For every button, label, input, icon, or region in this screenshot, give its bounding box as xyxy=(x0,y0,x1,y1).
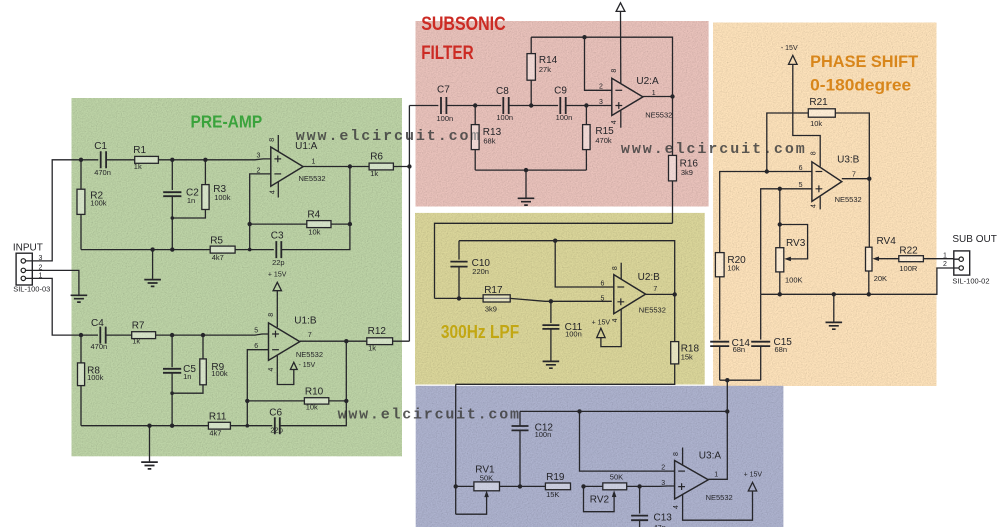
op-amp U3:A NE5532 xyxy=(675,461,709,500)
connector J1 INPUT SIL-100-03 xyxy=(16,253,32,285)
svg-text:C6: C6 xyxy=(269,408,282,419)
potentiometer RV1 50K xyxy=(456,485,474,487)
svg-text:4: 4 xyxy=(269,190,276,194)
svg-text:100n: 100n xyxy=(556,113,573,122)
wire J1 pin1 to node B xyxy=(32,278,81,335)
resistor R10 10k xyxy=(247,400,304,402)
svg-text:C1: C1 xyxy=(94,141,107,152)
+15V power arrow at U3:A xyxy=(748,482,756,491)
resistor R18 15k xyxy=(674,294,676,341)
svg-text:+ 15V: + 15V xyxy=(592,320,611,327)
svg-text:+ 15V: + 15V xyxy=(268,272,287,279)
resistor R5 4k7 xyxy=(210,246,235,253)
wire LPF output down to RV1 node xyxy=(455,384,457,514)
svg-text:R11: R11 xyxy=(209,412,227,423)
resistor R7 1k xyxy=(132,332,156,339)
svg-text:10k: 10k xyxy=(306,402,318,411)
junction RV1 left xyxy=(454,484,458,488)
region PRE-AMP (green) xyxy=(72,98,403,456)
wire U1:A output xyxy=(303,166,369,168)
svg-text:100K: 100K xyxy=(785,275,803,284)
svg-text:www.elcircuit.com: www.elcircuit.com xyxy=(338,406,519,423)
junction pin6/R21 xyxy=(765,169,769,173)
svg-text:2: 2 xyxy=(943,261,947,268)
svg-text:7: 7 xyxy=(852,172,856,179)
svg-text:27k: 27k xyxy=(539,65,551,74)
capacitor C4 470n xyxy=(81,334,98,336)
feedback vertical to U1:A output xyxy=(349,167,351,225)
junction pin5/RV3 xyxy=(778,187,782,191)
resistor R2 100k xyxy=(80,160,82,189)
ground at input pin2 xyxy=(71,295,88,302)
wire R1 to U1:A pin3 xyxy=(158,158,270,161)
+15V power arrow at U1:B xyxy=(273,282,281,290)
op-amp U3:B NE5532 xyxy=(812,162,842,202)
LPF feedback rail xyxy=(459,241,675,295)
wire rail to U2:B pin6 xyxy=(555,241,614,287)
svg-text:50K: 50K xyxy=(610,472,623,481)
U2:B power stub pin 8 xyxy=(620,263,622,279)
wire pin5 node down to RV3 xyxy=(779,189,781,248)
svg-text:NE5532: NE5532 xyxy=(296,350,323,359)
svg-text:1n: 1n xyxy=(183,372,191,381)
svg-text:22p: 22p xyxy=(272,258,285,267)
RV1 wiper loop xyxy=(456,494,487,515)
svg-text:- 15V: - 15V xyxy=(299,362,316,369)
mix node junction xyxy=(407,164,411,168)
junction C12 bottom xyxy=(518,484,522,488)
svg-text:1k: 1k xyxy=(134,162,142,171)
svg-text:C13: C13 xyxy=(654,513,673,524)
wire mix node to C7 xyxy=(409,105,438,107)
wire U1:B pin6 xyxy=(247,350,268,426)
svg-text:R7: R7 xyxy=(132,320,145,331)
wire R12 to mix node xyxy=(393,340,410,342)
svg-text:NE5532: NE5532 xyxy=(639,306,666,315)
svg-text:U2:B: U2:B xyxy=(638,272,661,283)
wire R6 to mix node xyxy=(393,166,409,168)
resistor R22 100R xyxy=(899,256,924,262)
svg-text:22p: 22p xyxy=(270,425,283,434)
svg-text:10k: 10k xyxy=(810,119,822,128)
svg-text:7: 7 xyxy=(308,332,312,339)
svg-text:U3:A: U3:A xyxy=(699,451,722,462)
svg-text:SIL-100-03: SIL-100-03 xyxy=(13,284,50,293)
capacitor C1 470n xyxy=(81,159,98,161)
U3:A power stub pin 4 to +15V xyxy=(683,491,753,520)
svg-text:www.elcircuit.com: www.elcircuit.com xyxy=(296,128,480,145)
wire R11 to C6 xyxy=(230,425,272,427)
svg-text:R6: R6 xyxy=(370,152,383,163)
wire R20 top to U3:B pin6 row xyxy=(720,172,812,253)
svg-text:NE5532: NE5532 xyxy=(706,493,733,502)
svg-text:2: 2 xyxy=(599,84,603,91)
svg-text:U1:A: U1:A xyxy=(295,141,318,152)
svg-text:1n: 1n xyxy=(187,196,195,205)
region SUBSONIC FILTER (red) xyxy=(416,21,709,207)
svg-text:5: 5 xyxy=(601,296,605,303)
junction at C5 branch xyxy=(170,333,174,337)
svg-text:5: 5 xyxy=(254,327,258,334)
svg-text:3: 3 xyxy=(257,152,261,159)
U2:A power stub pin 4 xyxy=(620,110,622,127)
svg-text:3: 3 xyxy=(599,99,603,106)
capacitor C7 100n xyxy=(441,97,446,114)
resistor R16 3k9 xyxy=(672,97,674,156)
svg-text:1: 1 xyxy=(312,159,316,166)
junction node at R3 branch xyxy=(203,158,207,162)
wire R7 to U1:B pin5 xyxy=(156,334,269,335)
node A junction xyxy=(79,158,83,162)
resistor R15 470k xyxy=(585,106,587,125)
U3:B power stub pin 4 xyxy=(819,197,821,210)
resistor R12 1k xyxy=(367,338,393,345)
svg-text:100k: 100k xyxy=(214,193,231,202)
svg-text:C7: C7 xyxy=(437,85,450,96)
svg-text:RV3: RV3 xyxy=(786,238,806,249)
resistor R13 68k xyxy=(474,106,476,125)
capacitor C10 220n xyxy=(458,241,460,260)
junction node at C2 branch xyxy=(170,158,174,162)
svg-text:68n: 68n xyxy=(733,345,746,354)
connector J2 SUB OUT SIL-100-02 xyxy=(954,251,970,275)
resistor R1 1k xyxy=(135,156,159,163)
svg-text:100k: 100k xyxy=(90,198,107,207)
junction R15 top xyxy=(584,103,588,107)
svg-text:6: 6 xyxy=(601,280,605,287)
svg-text:4: 4 xyxy=(673,505,680,509)
potentiometer RV2 50K xyxy=(584,485,603,487)
wire U2:A output xyxy=(643,96,673,98)
wire U3:A output up to C14/C15 rail xyxy=(708,380,727,479)
svg-text:100n: 100n xyxy=(437,114,454,123)
svg-text:1k: 1k xyxy=(368,344,376,353)
svg-text:R17: R17 xyxy=(484,285,503,296)
region bottom phase network (blue) xyxy=(416,386,784,527)
junction C11 top xyxy=(549,299,553,303)
svg-text:R1: R1 xyxy=(133,145,146,156)
svg-text:R22: R22 xyxy=(899,246,918,257)
wire J1 pin2 to ground xyxy=(32,270,79,294)
svg-text:470n: 470n xyxy=(91,342,108,351)
svg-text:U2:A: U2:A xyxy=(636,76,659,87)
svg-text:C4: C4 xyxy=(91,318,104,329)
svg-text:1k: 1k xyxy=(370,169,378,178)
junction at U1:A inverting branch xyxy=(248,248,252,252)
svg-text:8: 8 xyxy=(612,266,619,270)
junction at U1:B inverting branch xyxy=(246,424,250,428)
wire RV2 to U3:A pin3 xyxy=(627,485,675,487)
svg-text:8: 8 xyxy=(269,138,276,142)
resistor R4 10k xyxy=(250,223,307,225)
ground on orange rail xyxy=(832,292,836,296)
channel A lower rail xyxy=(81,249,210,251)
wire U2:B output xyxy=(646,293,675,295)
svg-text:SUB OUT: SUB OUT xyxy=(952,234,996,245)
mix node vertical wire xyxy=(408,106,410,342)
svg-text:470n: 470n xyxy=(94,168,111,177)
svg-text:PRE-AMP: PRE-AMP xyxy=(191,111,263,131)
svg-text:C9: C9 xyxy=(554,86,567,97)
op-amp U2:B NE5532 xyxy=(614,275,646,314)
svg-text:47n: 47n xyxy=(653,523,666,527)
node B junction xyxy=(79,333,83,337)
svg-text:0-180degree: 0-180degree xyxy=(810,76,911,95)
svg-text:6: 6 xyxy=(254,343,258,350)
RV4 wiper from R22 xyxy=(875,258,898,260)
potentiometer RV4 20K xyxy=(866,247,873,271)
ground on channel B rail xyxy=(149,426,151,462)
capacitor C6 22p xyxy=(275,417,280,434)
junction R4 left xyxy=(248,222,252,226)
junction R14 bottom xyxy=(529,103,533,107)
capacitor C5 1n xyxy=(163,369,181,373)
junction C13 top xyxy=(637,484,641,488)
svg-text:6: 6 xyxy=(799,165,803,172)
svg-text:4: 4 xyxy=(611,120,618,124)
svg-text:U3:B: U3:B xyxy=(837,155,860,166)
capacitor C15 68n xyxy=(760,294,762,339)
svg-text:68k: 68k xyxy=(483,137,495,146)
junction R13 top xyxy=(473,103,477,107)
U1:B power stub pin 8 to +15V xyxy=(276,291,278,328)
svg-text:+ 15V: + 15V xyxy=(744,472,763,479)
RV2 wiper loop xyxy=(584,486,615,511)
svg-text:220n: 220n xyxy=(472,267,489,276)
svg-text:10k: 10k xyxy=(308,228,320,237)
wire C2 branch xyxy=(171,160,173,190)
svg-text:NE5532: NE5532 xyxy=(835,195,862,204)
LPF input row xyxy=(435,298,612,301)
ground on subsonic rail xyxy=(525,170,527,198)
capacitor C14 68n xyxy=(710,342,729,346)
resistor R6 1k xyxy=(369,163,393,170)
svg-text:50K: 50K xyxy=(480,473,493,482)
wire R16 into LPF input xyxy=(435,223,673,298)
svg-text:470k: 470k xyxy=(595,136,612,145)
svg-text:1: 1 xyxy=(943,252,947,259)
capacitor C3 22p xyxy=(276,241,281,258)
op-amp U1:A NE5532 xyxy=(271,147,303,186)
resistor R9 100k xyxy=(202,335,204,359)
region 300Hz LPF (yellow) xyxy=(415,213,705,385)
svg-text:100n: 100n xyxy=(565,329,582,338)
svg-text:8: 8 xyxy=(611,69,618,73)
svg-text:7: 7 xyxy=(653,286,657,293)
resistor R11 4k7 xyxy=(208,422,230,429)
region PHASE SHIFT (orange) xyxy=(713,23,937,387)
junction R10 right xyxy=(344,399,348,403)
U2:B power stub pin 4 to +15V xyxy=(601,309,621,346)
orange bottom rail xyxy=(761,268,954,294)
svg-text:20K: 20K xyxy=(874,274,887,283)
svg-text:U1:B: U1:B xyxy=(294,315,317,326)
svg-text:100k: 100k xyxy=(87,373,104,382)
wire U3:B output xyxy=(842,178,870,180)
junction R10 left xyxy=(245,399,249,403)
wire RV1 to R19 xyxy=(500,485,546,487)
svg-text:15k: 15k xyxy=(681,353,693,362)
svg-text:R5: R5 xyxy=(210,236,223,247)
resistor R3 100k xyxy=(204,160,206,185)
-15V power arrow xyxy=(789,55,798,64)
blue feedback rail xyxy=(520,410,727,412)
svg-text:100k: 100k xyxy=(211,369,228,378)
U1:B power stub pin 4 to -15V xyxy=(277,356,294,385)
svg-text:2: 2 xyxy=(661,465,665,472)
svg-text:www.elcircuit.com: www.elcircuit.com xyxy=(621,141,805,158)
wire U1:A pin2 xyxy=(250,174,271,250)
+15V power arrow at U2:B xyxy=(597,328,605,337)
svg-text:FILTER: FILTER xyxy=(421,43,474,64)
wire output to RV4 top xyxy=(868,179,870,248)
wire U3:B pin5 branch xyxy=(761,189,812,294)
resistor R17 3k9 xyxy=(483,295,510,302)
svg-text:R19: R19 xyxy=(546,472,565,483)
svg-text:RV2: RV2 xyxy=(590,494,610,505)
resistor R21 10k xyxy=(767,113,809,172)
capacitor C12 100n xyxy=(519,431,521,487)
svg-text:NE5532: NE5532 xyxy=(645,110,672,119)
potentiometer RV3 100K xyxy=(776,248,784,272)
wire C5 branch xyxy=(171,335,173,367)
svg-text:100R: 100R xyxy=(899,264,918,273)
svg-text:SIL-100-02: SIL-100-02 xyxy=(952,276,989,285)
svg-text:5: 5 xyxy=(799,182,803,189)
wire -15V to U3:B pin 8 xyxy=(793,64,820,166)
ground on channel A rail xyxy=(152,250,154,279)
subsonic feedback rail xyxy=(531,37,672,96)
wire +15V to U2:A pin 8 xyxy=(620,11,622,83)
svg-text:RV4: RV4 xyxy=(877,236,897,247)
U1:A power stub pin 8 xyxy=(277,135,279,152)
svg-text:2: 2 xyxy=(257,167,261,174)
wire U1:B output xyxy=(300,340,367,342)
junction R4 right xyxy=(348,222,352,226)
svg-text:4k7: 4k7 xyxy=(209,429,221,438)
svg-text:4: 4 xyxy=(268,367,275,371)
svg-text:100n: 100n xyxy=(496,113,513,122)
U1:A power stub pin 4 xyxy=(277,181,279,197)
svg-text:8: 8 xyxy=(268,313,275,317)
svg-text:3: 3 xyxy=(661,480,665,487)
svg-text:8: 8 xyxy=(811,151,818,155)
svg-text:1k: 1k xyxy=(132,337,140,346)
svg-text:1: 1 xyxy=(714,471,718,478)
channel B lower rail xyxy=(81,425,208,427)
svg-text:R21: R21 xyxy=(809,97,828,108)
svg-text:R12: R12 xyxy=(368,326,387,337)
svg-text:SUBSONIC: SUBSONIC xyxy=(421,14,506,35)
svg-text:8: 8 xyxy=(673,452,680,456)
svg-text:R4: R4 xyxy=(307,209,320,220)
capacitor C8 100n xyxy=(503,97,508,114)
svg-text:NE5532: NE5532 xyxy=(299,174,326,183)
capacitor C2 1n xyxy=(163,192,181,196)
-15V power arrow at U1:B xyxy=(290,362,297,369)
resistor R20 10k xyxy=(715,253,724,277)
svg-text:C8: C8 xyxy=(496,86,509,97)
svg-text:C3: C3 xyxy=(271,231,284,242)
svg-text:PHASE SHIFT: PHASE SHIFT xyxy=(810,52,919,71)
capacitor C11 100n xyxy=(550,301,552,323)
svg-text:4: 4 xyxy=(811,204,818,208)
junction R19/RV2 xyxy=(581,484,585,488)
op-amp U1:B NE5532 xyxy=(269,323,300,361)
C14/C15 bottom rail xyxy=(720,379,761,381)
wire J1 pin3 to node A xyxy=(32,160,81,261)
junction at R9 branch xyxy=(201,333,205,337)
svg-text:3k9: 3k9 xyxy=(681,168,693,177)
capacitor C13 47n xyxy=(639,486,641,513)
junction C10 bottom xyxy=(457,296,461,300)
svg-text:15K: 15K xyxy=(546,490,559,499)
svg-text:300Hz LPF: 300Hz LPF xyxy=(441,322,519,342)
op-amp U2:A NE5532 xyxy=(612,78,643,115)
wire rail to U3:A pin2 xyxy=(580,411,675,471)
junction RV3 top/wiper xyxy=(778,222,782,226)
svg-text:100n: 100n xyxy=(535,430,552,439)
svg-text:R10: R10 xyxy=(305,386,324,397)
svg-text:4k7: 4k7 xyxy=(212,253,224,262)
wire R5 to C3 xyxy=(235,249,274,251)
svg-text:3k9: 3k9 xyxy=(485,305,497,314)
+15V power arrow top xyxy=(616,3,625,12)
capacitor C9 100n xyxy=(560,97,565,114)
svg-text:4: 4 xyxy=(612,318,619,322)
svg-text:INPUT: INPUT xyxy=(13,243,43,254)
svg-text:- 15V: - 15V xyxy=(781,45,798,52)
wire rail to U2:A pin2 xyxy=(585,37,612,90)
resistor R8 100k xyxy=(80,335,82,363)
subsonic ground rail xyxy=(475,169,586,171)
svg-text:68n: 68n xyxy=(775,345,788,354)
resistor R19 15K xyxy=(545,483,570,490)
resistor R14 27k xyxy=(530,80,532,105)
U3:A power stub pin 8 xyxy=(682,448,684,466)
svg-text:10k: 10k xyxy=(727,263,739,272)
